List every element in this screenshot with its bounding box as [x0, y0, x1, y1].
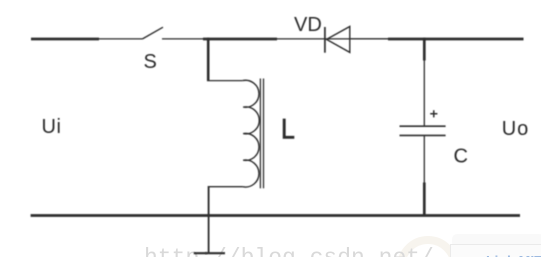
inductor core line 1 [259, 79, 261, 189]
tooltip box bottom-right [451, 234, 541, 257]
inductor L coil [243, 80, 260, 187]
label L [284, 119, 294, 138]
node B vertical drop thick [423, 38, 426, 61]
wire inductor to bottom rail [208, 186, 210, 216]
wire capacitor down thin [423, 135, 425, 183]
node A vertical drop to inductor [207, 38, 210, 81]
svg-text:Uo: Uo [502, 118, 529, 140]
ground stem [208, 216, 210, 254]
wire diode to node thin [350, 38, 389, 40]
ground bar [194, 252, 225, 254]
inductor top lead [207, 80, 243, 82]
inductor core line 2 [263, 79, 265, 189]
plus polarity mark [430, 110, 437, 117]
svg-text:S: S [144, 51, 157, 73]
svg-text:Link MIT: Link MIT [486, 253, 541, 257]
watermark blob (faint logo) [401, 240, 455, 257]
wire to capacitor thin [423, 60, 425, 127]
svg-text:Ui: Ui [42, 116, 62, 138]
switch S blade [143, 27, 164, 39]
capacitor C plate top [400, 125, 446, 127]
diode VD triangle [327, 27, 350, 53]
svg-text:http://blog.csdn.net/: http://blog.csdn.net/ [144, 245, 434, 257]
diode VD cathode bar [324, 27, 326, 53]
wire node to diode thick [203, 38, 277, 41]
wire thin to diode [276, 38, 389, 40]
svg-text:C: C [454, 146, 468, 168]
svg-text:VD: VD [294, 14, 322, 36]
wire switch to node [162, 38, 205, 40]
capacitor C plate bottom [400, 134, 446, 136]
wire top-left thick [31, 38, 99, 41]
wire capacitor to bottom rail thick [423, 183, 426, 217]
bottom rail [31, 214, 520, 217]
wire top-right thick [388, 38, 524, 41]
wire thin to switch [97, 38, 143, 40]
inductor bottom lead [208, 186, 242, 188]
